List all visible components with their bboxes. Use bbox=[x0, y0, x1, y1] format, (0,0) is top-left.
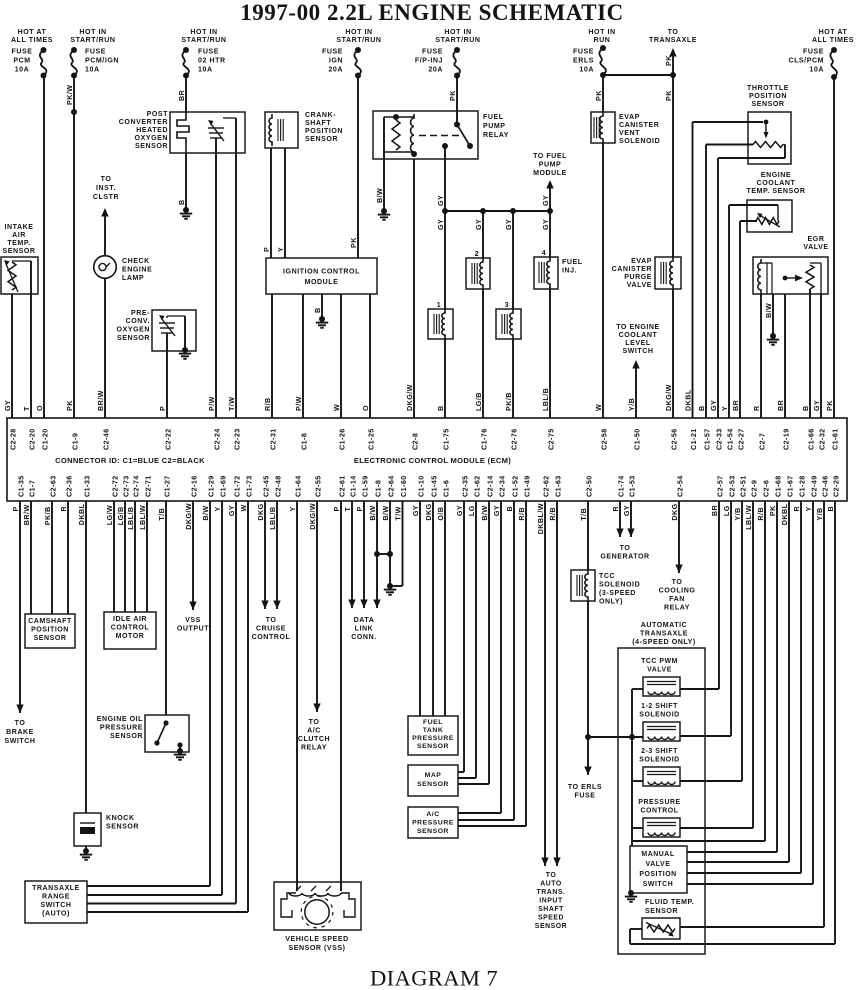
wire DKBL C1-33 to knock sensor bbox=[85, 501, 87, 813]
svg-text:BR: BR bbox=[178, 89, 186, 101]
svg-text:LG: LG bbox=[723, 505, 731, 516]
wire LG/B C2-73 to idle air motor bbox=[124, 501, 126, 612]
svg-text:O: O bbox=[36, 405, 44, 411]
TCC solenoid label bbox=[599, 573, 640, 606]
switch engine oil pressure sensor bbox=[145, 715, 189, 760]
svg-text:Y: Y bbox=[214, 506, 222, 511]
svg-text:FUSE: FUSE bbox=[575, 793, 596, 800]
svg-text:FLUID TEMP.: FLUID TEMP. bbox=[645, 899, 694, 906]
wire PK C1-68 to manual valve switch bbox=[687, 501, 777, 852]
svg-text:IGNITION CONTROL: IGNITION CONTROL bbox=[283, 269, 360, 276]
svg-text:B/W: B/W bbox=[481, 505, 489, 520]
svg-text:INST.: INST. bbox=[96, 185, 116, 192]
label PK (transaxle above) bbox=[665, 55, 673, 66]
wire T intake sensor to C2-20 bbox=[30, 294, 32, 418]
svg-text:LBL/B: LBL/B bbox=[127, 506, 135, 529]
svg-text:C2-63: C2-63 bbox=[49, 475, 57, 497]
net TO TRANSAXLE bbox=[649, 29, 697, 44]
svg-text:DIAGRAM 7: DIAGRAM 7 bbox=[370, 966, 498, 990]
svg-text:F/P-INJ: F/P-INJ bbox=[415, 58, 443, 65]
svg-text:C2-58: C2-58 bbox=[600, 428, 608, 450]
solenoid pressure control bbox=[632, 799, 753, 837]
svg-text:TRANS.: TRANS. bbox=[537, 889, 566, 896]
svg-text:C2-24: C2-24 bbox=[213, 428, 221, 450]
svg-text:HOT IN: HOT IN bbox=[588, 29, 615, 36]
svg-text:PRESSURE: PRESSURE bbox=[412, 735, 454, 742]
svg-text:TCC PWM: TCC PWM bbox=[641, 658, 678, 665]
svg-text:C1-61: C1-61 bbox=[831, 428, 839, 450]
label GY bus drop 3 bbox=[505, 219, 513, 230]
svg-text:TO ERLS: TO ERLS bbox=[568, 784, 602, 791]
wire LBL/B C2-74 to idle air motor bbox=[134, 501, 136, 612]
svg-text:C2-61: C2-61 bbox=[338, 475, 346, 497]
svg-text:SENSOR: SENSOR bbox=[110, 733, 143, 740]
net TO CRUISE CONTROL bbox=[252, 617, 291, 641]
svg-text:C1-6: C1-6 bbox=[442, 480, 450, 497]
svg-text:SOLENOID: SOLENOID bbox=[599, 582, 640, 589]
svg-text:C1-59: C1-59 bbox=[361, 475, 369, 497]
svg-text:C1-52: C1-52 bbox=[511, 475, 519, 497]
wire LG C2-53 to 1-2 shift solenoid bbox=[730, 501, 732, 736]
svg-text:PK: PK bbox=[769, 505, 777, 516]
svg-text:W: W bbox=[333, 404, 341, 411]
vehicle speed sensor label bbox=[285, 936, 349, 952]
net TO ERLS FUSE bbox=[568, 784, 602, 800]
svg-text:T: T bbox=[23, 406, 31, 411]
wire T/W C1-60 to ground bbox=[390, 501, 403, 586]
svg-text:EVAP: EVAP bbox=[631, 258, 652, 265]
label PK (transaxle below) bbox=[665, 90, 673, 101]
svg-text:CLUTCH: CLUTCH bbox=[298, 736, 330, 743]
svg-text:R/B: R/B bbox=[549, 507, 557, 521]
wire BR C2-57 to TCC PWM valve bbox=[718, 501, 720, 689]
svg-text:TO: TO bbox=[15, 720, 26, 727]
engine coolant temp sensor label bbox=[747, 172, 806, 195]
svg-text:C2-31: C2-31 bbox=[269, 428, 277, 450]
svg-text:C1-64: C1-64 bbox=[294, 475, 302, 497]
svg-text:R: R bbox=[60, 506, 68, 512]
svg-text:INJ.: INJ. bbox=[562, 268, 577, 275]
svg-text:C2-19: C2-19 bbox=[782, 428, 790, 450]
label GY (above bus left) bbox=[437, 195, 445, 206]
wire GY EGR to C2-32 bbox=[820, 294, 822, 418]
fuel injector label bbox=[562, 259, 583, 275]
svg-text:CONTROL: CONTROL bbox=[252, 634, 291, 641]
svg-text:B/W: B/W bbox=[765, 303, 773, 318]
svg-text:ALL TIMES: ALL TIMES bbox=[812, 37, 854, 44]
svg-text:PK: PK bbox=[826, 400, 834, 411]
svg-text:C1-8: C1-8 bbox=[374, 480, 382, 497]
solenoid 2-3 shift bbox=[632, 748, 742, 786]
vehicle speed sensor box bbox=[274, 882, 361, 930]
wire T C1-14 to data link conn bbox=[348, 501, 355, 608]
label B/W (relay) bbox=[376, 188, 384, 203]
power feed HOT AT ALL TIMES (right) bbox=[812, 29, 854, 44]
svg-text:C2-76: C2-76 bbox=[510, 428, 518, 450]
svg-text:O: O bbox=[362, 405, 370, 411]
svg-text:GY: GY bbox=[493, 505, 501, 516]
svg-text:TO FUEL: TO FUEL bbox=[533, 153, 567, 160]
svg-text:GY: GY bbox=[813, 400, 821, 411]
svg-text:C2-48: C2-48 bbox=[274, 475, 282, 497]
svg-text:GY: GY bbox=[412, 505, 420, 516]
svg-text:Y: Y bbox=[805, 506, 813, 511]
svg-text:CAMSHAFT: CAMSHAFT bbox=[28, 618, 72, 625]
svg-text:ENGINE: ENGINE bbox=[122, 267, 152, 274]
svg-text:TEMP.: TEMP. bbox=[7, 240, 30, 247]
svg-text:ENGINE OIL: ENGINE OIL bbox=[97, 716, 143, 723]
svg-text:1: 1 bbox=[437, 302, 441, 309]
wire LBL/W C2-9 to pressure control bbox=[752, 501, 754, 828]
svg-text:LG/B: LG/B bbox=[475, 392, 483, 411]
net DATA LINK CONN. bbox=[351, 617, 376, 641]
svg-text:DKG/W: DKG/W bbox=[406, 384, 414, 411]
svg-text:FAN: FAN bbox=[669, 596, 685, 603]
wire O ICM to C1-25 bbox=[369, 294, 371, 418]
svg-text:C2-53: C2-53 bbox=[728, 475, 736, 497]
wire GY to fuel pump module (arrow up) bbox=[546, 180, 553, 211]
svg-text:DKBL/W: DKBL/W bbox=[537, 503, 545, 534]
O2 element symbol (post) bbox=[208, 118, 236, 153]
A/C pressure sensor box bbox=[408, 807, 458, 838]
svg-text:CONV.: CONV. bbox=[126, 318, 150, 325]
wire Y/B C1-50 to coolant level switch bbox=[632, 360, 639, 418]
wire DKG/W relay coil to C2-8 bbox=[413, 159, 415, 418]
wire TCC to ERLS fuse bbox=[584, 737, 591, 775]
wire P/W post O2 to C2-24 bbox=[215, 153, 217, 418]
svg-text:Y: Y bbox=[277, 247, 285, 252]
svg-text:C2-56: C2-56 bbox=[670, 428, 678, 450]
svg-text:HOT AT: HOT AT bbox=[18, 29, 47, 36]
svg-text:TO: TO bbox=[620, 545, 631, 552]
svg-text:POSITION: POSITION bbox=[749, 93, 787, 100]
svg-text:C1-74: C1-74 bbox=[617, 475, 625, 497]
wire PK/B C2-63 to camshaft sensor bbox=[51, 501, 53, 614]
power feed HOT IN START/RUN (O2 HTR) bbox=[181, 29, 226, 44]
svg-text:R: R bbox=[612, 506, 620, 512]
svg-text:P: P bbox=[333, 506, 341, 511]
crankshaft position sensor box bbox=[265, 112, 298, 148]
svg-text:P/W: P/W bbox=[208, 396, 216, 411]
svg-text:CONN.: CONN. bbox=[351, 634, 376, 641]
svg-text:02 HTR: 02 HTR bbox=[198, 58, 226, 65]
svg-text:C2-55: C2-55 bbox=[314, 475, 322, 497]
svg-text:C2-50: C2-50 bbox=[585, 475, 593, 497]
wire color labels above ECM bbox=[4, 384, 834, 411]
svg-text:DKG/W: DKG/W bbox=[309, 503, 317, 530]
power feed HOT IN RUN bbox=[588, 29, 615, 44]
svg-text:10A: 10A bbox=[85, 67, 100, 74]
svg-text:INTAKE: INTAKE bbox=[4, 224, 33, 231]
svg-text:PK: PK bbox=[449, 90, 457, 101]
svg-text:C1-67: C1-67 bbox=[786, 475, 794, 497]
svg-text:TEMP. SENSOR: TEMP. SENSOR bbox=[747, 188, 806, 195]
diagram number bbox=[370, 966, 498, 990]
wire R EGR to C2-7 bbox=[760, 294, 762, 418]
relay switch bbox=[419, 122, 473, 150]
wire B/W C1-8 to data link conn bbox=[373, 501, 380, 608]
EGR solenoid coil bbox=[758, 259, 772, 294]
label PK (F/P-INJ wire) bbox=[449, 90, 457, 101]
svg-text:MODULE: MODULE bbox=[533, 170, 567, 177]
svg-text:PRESSURE: PRESSURE bbox=[100, 725, 143, 732]
svg-text:PURGE: PURGE bbox=[624, 274, 652, 281]
capacitor knock sensor bbox=[74, 813, 101, 846]
wire W ICM to C1-26 bbox=[340, 294, 342, 418]
wire Y/B C2-51 to 2-3 shift solenoid bbox=[741, 501, 743, 781]
svg-text:Y/B: Y/B bbox=[816, 507, 824, 520]
solenoid TCC (3-speed) bbox=[571, 570, 595, 601]
svg-text:VALVE: VALVE bbox=[627, 282, 652, 289]
svg-text:C2-46: C2-46 bbox=[821, 475, 829, 497]
svg-text:2-3 SHIFT: 2-3 SHIFT bbox=[641, 748, 678, 755]
wire DKG/W C2-55 to A/C clutch relay bbox=[313, 501, 320, 712]
wire B ICM to ground bbox=[321, 294, 323, 319]
svg-text:SENSOR: SENSOR bbox=[417, 743, 449, 750]
wire B/W C1-29 to transaxle range switch bbox=[87, 501, 210, 886]
svg-text:VSS: VSS bbox=[185, 617, 201, 624]
svg-text:VENT: VENT bbox=[619, 130, 640, 137]
svg-text:LBL/B: LBL/B bbox=[269, 506, 277, 529]
svg-text:BRAKE: BRAKE bbox=[6, 729, 34, 736]
svg-text:RELAY: RELAY bbox=[664, 605, 690, 612]
fuse PCM 10A label bbox=[12, 49, 33, 74]
wire B/W C2-14 to MAP sensor bbox=[458, 501, 489, 784]
svg-text:PK: PK bbox=[665, 55, 673, 66]
pre-conv oxygen sensor box bbox=[152, 310, 196, 351]
svg-text:VALVE: VALVE bbox=[803, 244, 828, 251]
svg-text:B: B bbox=[506, 506, 514, 512]
wire DKBL TPS wiper to C1-21 bbox=[693, 122, 764, 418]
wire PK fuse F/P-INJ to fuel pump relay bbox=[456, 76, 458, 125]
svg-text:GY: GY bbox=[4, 400, 12, 411]
ground DLC wires bbox=[384, 583, 396, 595]
wire P C2-61 to vehicle speed sensor bbox=[340, 501, 342, 891]
svg-text:OXYGEN: OXYGEN bbox=[117, 327, 150, 334]
ground EGR bbox=[767, 333, 779, 345]
svg-text:FUSE: FUSE bbox=[422, 49, 443, 56]
ECM name text bbox=[354, 456, 511, 465]
wire R C2-36 to camshaft sensor bbox=[67, 501, 69, 614]
wire P crank sensor to ICM bbox=[270, 148, 272, 258]
svg-text:GY: GY bbox=[710, 400, 718, 411]
svg-text:FUSE: FUSE bbox=[12, 49, 33, 56]
svg-text:PK: PK bbox=[66, 400, 74, 411]
svg-text:SENSOR: SENSOR bbox=[535, 923, 567, 930]
svg-text:FUSE: FUSE bbox=[322, 49, 343, 56]
wire B/W EGR to ground bbox=[772, 294, 774, 336]
fuse PCM/IGN 10A label bbox=[85, 49, 119, 74]
svg-text:GY: GY bbox=[228, 505, 236, 516]
wire B/W C2-64 to ground bbox=[389, 501, 391, 586]
wire PK to transaxle (arrow up) bbox=[669, 48, 676, 75]
title bbox=[240, 0, 624, 25]
svg-text:GY: GY bbox=[437, 195, 445, 206]
svg-text:C2-35: C2-35 bbox=[461, 475, 469, 497]
automatic transaxle box bbox=[618, 648, 705, 954]
svg-text:C2-8: C2-8 bbox=[411, 433, 419, 450]
svg-text:TO ENGINE: TO ENGINE bbox=[616, 324, 660, 331]
svg-text:10A: 10A bbox=[579, 67, 594, 74]
svg-text:SENSOR: SENSOR bbox=[305, 136, 338, 143]
svg-text:B/W: B/W bbox=[202, 505, 210, 520]
evap canister purge valve label bbox=[612, 258, 652, 289]
power feed HOT IN START/RUN (F/P-INJ) bbox=[435, 29, 480, 44]
svg-text:START/RUN: START/RUN bbox=[181, 37, 226, 44]
fuse ERLS 10A bbox=[599, 45, 606, 78]
label GY (fp module) bbox=[542, 195, 550, 206]
solenoid TCC PWM valve bbox=[632, 658, 719, 696]
wire Y C2-49 to manual valve switch bbox=[687, 501, 813, 884]
svg-text:4: 4 bbox=[542, 250, 546, 257]
svg-text:C2-64: C2-64 bbox=[387, 475, 395, 497]
throttle position sensor label bbox=[747, 85, 789, 108]
wire DKG C1-45 to fuel tank pressure sensor bbox=[432, 501, 434, 716]
label Y (crank) bbox=[277, 247, 285, 252]
svg-text:PK/B: PK/B bbox=[44, 506, 52, 525]
svg-text:BR/W: BR/W bbox=[97, 390, 105, 411]
svg-text:C1-26: C1-26 bbox=[338, 428, 346, 450]
svg-text:P/W: P/W bbox=[295, 396, 303, 411]
svg-text:C1-9: C1-9 bbox=[71, 433, 79, 450]
wire LBL/W C2-71 to idle air motor bbox=[146, 501, 148, 612]
svg-text:AUTOMATIC: AUTOMATIC bbox=[641, 622, 688, 629]
svg-text:TO: TO bbox=[101, 176, 112, 183]
svg-text:BR/W: BR/W bbox=[23, 504, 31, 525]
fluid temp sensor label bbox=[645, 899, 694, 915]
svg-text:DKBL: DKBL bbox=[781, 503, 789, 525]
svg-text:10A: 10A bbox=[15, 67, 30, 74]
svg-text:VALVE: VALVE bbox=[646, 861, 671, 868]
svg-text:START/RUN: START/RUN bbox=[336, 37, 381, 44]
svg-text:TO: TO bbox=[546, 872, 557, 879]
svg-text:C2-36: C2-36 bbox=[65, 475, 73, 497]
svg-text:C1-28: C1-28 bbox=[798, 475, 806, 497]
ground pre-conv O2 bbox=[179, 347, 191, 359]
net VSS OUTPUT bbox=[177, 501, 209, 633]
svg-text:TCC: TCC bbox=[599, 573, 615, 580]
svg-text:C2-23: C2-23 bbox=[233, 428, 241, 450]
svg-text:COOLANT: COOLANT bbox=[619, 332, 658, 339]
svg-text:PRESSURE: PRESSURE bbox=[412, 820, 454, 827]
svg-text:C1-53: C1-53 bbox=[628, 475, 636, 497]
wire Y crank sensor to ICM bbox=[284, 148, 286, 258]
svg-text:GY: GY bbox=[542, 219, 550, 230]
wire PK/W fuse PCM/IGN to C1-9 bbox=[71, 76, 77, 419]
wire injector3 branch bbox=[512, 211, 514, 418]
label P (crank) bbox=[263, 247, 271, 252]
ground ICM bbox=[316, 316, 328, 328]
throttle position sensor box bbox=[748, 112, 791, 164]
fuel pump relay box bbox=[373, 111, 478, 159]
solenoid 1-2 shift bbox=[639, 703, 731, 741]
svg-text:C1-72: C1-72 bbox=[233, 475, 241, 497]
svg-text:CONNECTOR ID: C1=BLUE C2=BLACK: CONNECTOR ID: C1=BLUE C2=BLACK bbox=[55, 456, 205, 465]
label PK (vent wire) bbox=[595, 90, 603, 101]
svg-text:PK: PK bbox=[350, 237, 358, 248]
svg-text:HOT IN: HOT IN bbox=[190, 29, 217, 36]
svg-text:C2-46: C2-46 bbox=[102, 428, 110, 450]
wire B C2-29 fluid temp return bbox=[630, 501, 835, 944]
svg-text:A/C: A/C bbox=[307, 728, 321, 735]
wire DKG/W purge valve to C2-56 bbox=[672, 289, 674, 418]
wire P pre-conv O2 to C2-22 bbox=[166, 333, 168, 418]
fuse IGN 20A label bbox=[322, 49, 343, 74]
evap canister vent solenoid box bbox=[591, 112, 615, 143]
svg-text:CRANK-: CRANK- bbox=[305, 112, 336, 119]
wire GY C2-34 to A/C pressure sensor bbox=[458, 501, 501, 813]
O2 element symbol (pre) bbox=[159, 315, 185, 350]
injector 4 box bbox=[534, 250, 558, 289]
svg-text:VALVE: VALVE bbox=[647, 667, 672, 674]
svg-text:RANGE: RANGE bbox=[42, 894, 70, 901]
svg-text:W: W bbox=[595, 404, 603, 411]
svg-text:GY: GY bbox=[456, 505, 464, 516]
svg-text:GY: GY bbox=[437, 219, 445, 230]
camshaft position sensor box bbox=[25, 614, 75, 648]
svg-text:SENSOR (VSS): SENSOR (VSS) bbox=[288, 945, 345, 952]
wire Y C1-69 to transaxle range switch bbox=[87, 501, 222, 895]
svg-text:SENSOR: SENSOR bbox=[34, 635, 67, 642]
svg-text:KNOCK: KNOCK bbox=[106, 815, 135, 822]
svg-text:AIR: AIR bbox=[12, 232, 26, 239]
svg-text:3: 3 bbox=[505, 302, 509, 309]
svg-text:POSITION: POSITION bbox=[31, 627, 69, 634]
svg-text:10A: 10A bbox=[198, 67, 213, 74]
svg-text:R/B: R/B bbox=[518, 507, 526, 521]
engine oil pressure sensor label bbox=[97, 716, 143, 740]
svg-text:T: T bbox=[344, 507, 352, 512]
svg-text:HOT IN: HOT IN bbox=[345, 29, 372, 36]
wire PK to purge valve bbox=[672, 75, 674, 257]
svg-text:PK: PK bbox=[665, 90, 673, 101]
svg-text:T/W: T/W bbox=[228, 397, 236, 411]
svg-text:COOLING: COOLING bbox=[659, 588, 696, 595]
injector 2 box bbox=[466, 251, 490, 289]
svg-text:SENSOR: SENSOR bbox=[106, 824, 139, 831]
wire O/B C1-6 to fuel tank pressure sensor bbox=[444, 501, 446, 716]
net TO BRAKE SWITCH bbox=[4, 720, 35, 745]
fuse F/P-INJ 20A label bbox=[415, 49, 443, 74]
ECM bottom row pin ids bbox=[17, 475, 840, 497]
svg-text:TO: TO bbox=[668, 29, 679, 36]
svg-text:SWITCH: SWITCH bbox=[643, 881, 673, 888]
svg-text:SHAFT: SHAFT bbox=[538, 906, 564, 913]
svg-text:P: P bbox=[263, 247, 271, 252]
wire PK fuse IGN to ICM bbox=[357, 76, 359, 259]
crankshaft position sensor label bbox=[305, 112, 343, 143]
svg-text:SOLENOID: SOLENOID bbox=[639, 757, 679, 764]
wire injector1 branch bbox=[444, 211, 446, 418]
wire O fuse PCM to C1-20 bbox=[43, 76, 45, 419]
svg-text:2: 2 bbox=[475, 251, 479, 258]
svg-text:SOLENOID: SOLENOID bbox=[619, 138, 660, 145]
wire injector2 branch bbox=[482, 211, 484, 418]
svg-text:B: B bbox=[314, 307, 322, 313]
svg-text:VEHICLE SPEED: VEHICLE SPEED bbox=[285, 936, 349, 943]
label GY bus drop 4 bbox=[542, 219, 550, 230]
svg-text:LBL/W: LBL/W bbox=[139, 505, 147, 530]
svg-text:BR: BR bbox=[732, 399, 740, 411]
svg-text:PUMP: PUMP bbox=[539, 162, 562, 169]
svg-text:R/B: R/B bbox=[264, 397, 272, 411]
thermistor fluid temp sensor bbox=[642, 918, 680, 939]
transaxle range switch box bbox=[25, 881, 87, 923]
svg-text:THROTTLE: THROTTLE bbox=[747, 85, 789, 92]
label PK (IGN wire) bbox=[350, 237, 358, 248]
pre-conv oxygen sensor label bbox=[117, 310, 151, 342]
label GY bus drop 2 bbox=[475, 219, 483, 230]
